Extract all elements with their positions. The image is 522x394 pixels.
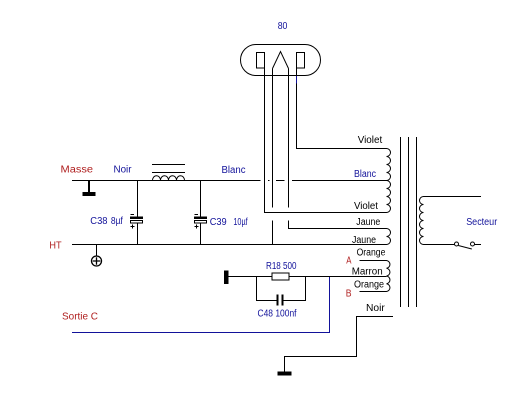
T1 HV secondary winding	[387, 149, 391, 213]
wire pin3 filament upper segment	[288, 69, 290, 208]
capacitor C48 plates	[278, 295, 283, 306]
wire HT bus to Jaune lower tap	[72, 244, 387, 246]
capacitor C38 plus sign	[131, 225, 135, 229]
wire C38 junction drop	[137, 181, 139, 217]
switch S1	[455, 242, 475, 249]
svg-text:8µf: 8µf	[111, 216, 123, 227]
svg-text:10µf: 10µf	[233, 217, 247, 228]
svg-text:Orange: Orange	[357, 248, 386, 259]
resistor R18 body	[272, 273, 289, 280]
ground Masse stub	[88, 181, 90, 193]
wire pin1 left anode down to Violet lower tap	[265, 68, 387, 213]
svg-text:Secteur: Secteur	[466, 217, 498, 228]
T1 heater winding Orange	[387, 261, 390, 292]
svg-text:Orange: Orange	[354, 279, 384, 290]
svg-text:Jaune: Jaune	[356, 217, 380, 228]
svg-text:Violet: Violet	[358, 135, 383, 146]
wire primary bottom to switch	[424, 244, 455, 246]
wire top bus from Masse to tube pins	[72, 180, 261, 182]
svg-text:C39: C39	[210, 217, 227, 228]
svg-text:80: 80	[278, 21, 288, 32]
tube anode plate right	[297, 53, 305, 69]
wire pin2 lower segment to HT node	[272, 221, 274, 245]
svg-text:A: A	[346, 256, 351, 267]
inductor L1 core lines	[152, 165, 185, 173]
T1 filament winding Jaune	[387, 229, 391, 245]
wire R18 bus to Marron center tap	[229, 276, 387, 278]
blue wire mark on pin4	[296, 76, 298, 84]
wire Orange upper stub node A	[360, 260, 387, 262]
transformer T1 core	[401, 137, 417, 307]
capacitor C39 minus sign	[195, 214, 199, 216]
wire switch to mains	[475, 244, 481, 246]
rectifier tube U1 (type 80) envelope	[241, 45, 321, 76]
wire primary top to mains	[424, 196, 482, 198]
wire parallel branch left leg	[257, 277, 277, 301]
svg-text:Marron: Marron	[352, 266, 383, 277]
svg-text:C38: C38	[90, 216, 108, 227]
wire pin4 right anode down to Violet upper tap	[297, 68, 387, 149]
ground bar bottom	[278, 372, 292, 376]
blue wire Sortie C	[72, 277, 330, 333]
svg-text:Blanc: Blanc	[222, 165, 246, 176]
HT test terminal stub	[96, 245, 98, 256]
svg-text:Noir: Noir	[366, 303, 385, 314]
wire top bus to Blanc center tap	[292, 180, 387, 182]
wire top bus dash a	[268, 180, 270, 182]
svg-text:Blanc: Blanc	[354, 169, 376, 180]
wire parallel branch right leg	[284, 277, 306, 301]
svg-text:R18 500: R18 500	[266, 261, 297, 272]
wire Noir to ground	[285, 317, 394, 372]
svg-text:B: B	[346, 288, 352, 299]
wire C39 to HT bus	[200, 224, 202, 245]
tube anode plate left	[257, 53, 265, 69]
svg-text:Violet: Violet	[354, 201, 378, 212]
svg-text:Sortie C: Sortie C	[62, 312, 98, 323]
wire C38 to HT bus	[137, 224, 139, 245]
capacitor C39 bottom plate	[195, 221, 207, 224]
capacitor C39 plus sign	[195, 225, 199, 229]
capacitor C39 top plate	[194, 217, 207, 220]
ground Masse bar	[83, 192, 96, 196]
wire top bus dash b	[276, 180, 285, 182]
svg-text:Jaune: Jaune	[352, 235, 376, 246]
capacitor C38 top plate	[130, 217, 143, 220]
terminal bar node at R18 input	[224, 271, 229, 285]
wire pin3 lower segment to Jaune upper tap	[289, 221, 387, 229]
wire pin2 filament upper segment	[272, 69, 274, 208]
inductor L1 winding	[153, 176, 185, 181]
svg-text:C48 100nf: C48 100nf	[258, 308, 297, 319]
wire C39 junction drop	[200, 181, 202, 217]
svg-text:Masse: Masse	[61, 165, 94, 176]
capacitor C38 bottom plate	[131, 221, 143, 224]
HT test terminal circle plus	[92, 256, 102, 266]
T1 primary winding	[420, 197, 424, 245]
svg-text:Noir: Noir	[114, 165, 133, 176]
svg-text:HT: HT	[49, 241, 61, 252]
capacitor C38 minus sign	[131, 214, 135, 216]
tube filament	[273, 52, 289, 69]
wire Orange lower stub node B	[360, 291, 387, 293]
